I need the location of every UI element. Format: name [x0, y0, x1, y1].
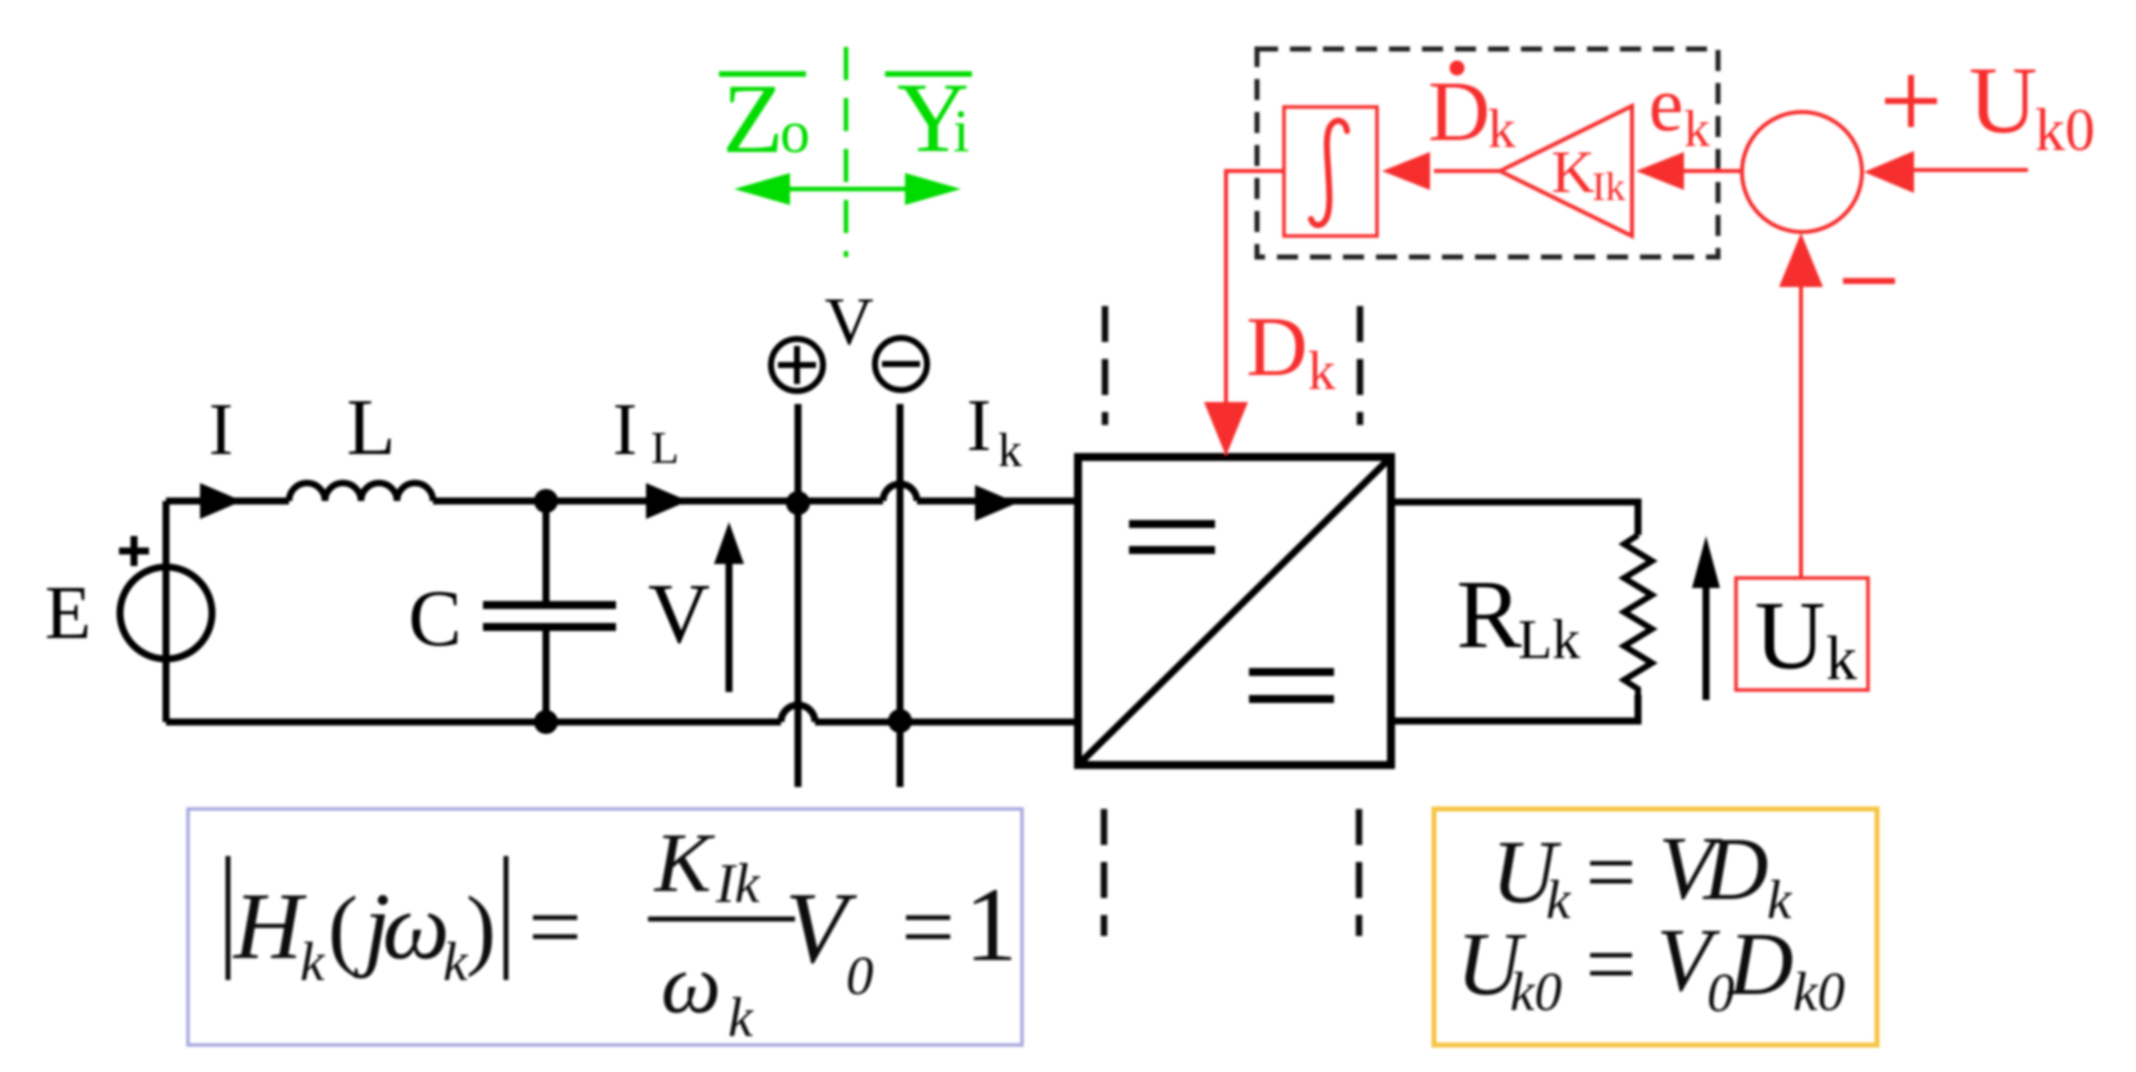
svg-text:V: V [824, 283, 873, 359]
svg-text:K: K [1551, 139, 1594, 205]
svg-text:I: I [967, 385, 992, 467]
svg-text:k: k [1684, 101, 1710, 158]
svg-text:L: L [347, 384, 396, 472]
svg-text:C: C [408, 575, 461, 663]
svg-text:k: k [300, 931, 326, 992]
svg-text:H: H [232, 873, 307, 979]
svg-text:U: U [1755, 582, 1826, 690]
svg-text:L: L [651, 422, 679, 473]
svg-text:k0: k0 [2035, 97, 2095, 163]
svg-text:k: k [998, 424, 1022, 477]
svg-text:K: K [654, 816, 716, 910]
svg-text:=: = [1586, 915, 1637, 1014]
svg-text:D: D [1246, 300, 1307, 394]
svg-text:=: = [901, 874, 955, 980]
svg-text:k: k [1546, 869, 1572, 930]
svg-text:D: D [1428, 63, 1490, 159]
svg-text:ω: ω [382, 873, 449, 979]
svg-text:k0: k0 [1510, 961, 1562, 1022]
svg-text:k: k [1826, 625, 1857, 693]
svg-text:o: o [780, 99, 810, 165]
svg-text:k: k [1488, 98, 1516, 159]
svg-text:Z: Z [722, 63, 783, 174]
svg-text:(: ( [328, 879, 358, 978]
svg-text:=: = [1586, 823, 1637, 922]
svg-text:I: I [613, 389, 638, 471]
svg-text:=: = [528, 874, 582, 980]
svg-text:1: 1 [965, 866, 1018, 983]
svg-text:): ) [466, 879, 496, 978]
svg-text:Ik: Ik [715, 853, 761, 915]
svg-text:V: V [648, 565, 710, 661]
svg-text:ω: ω [661, 937, 721, 1031]
svg-text:k: k [728, 987, 754, 1049]
svg-text:R: R [1456, 561, 1522, 669]
svg-text:U: U [1969, 47, 2038, 153]
svg-text:i: i [953, 98, 970, 164]
svg-text:k0: k0 [1793, 961, 1845, 1022]
svg-text:0: 0 [846, 945, 874, 1006]
svg-text:Lk: Lk [1518, 609, 1580, 671]
svg-text:Ik: Ik [1592, 164, 1625, 209]
svg-text:D: D [1702, 820, 1769, 919]
svg-text:I: I [209, 389, 234, 471]
svg-text:D: D [1727, 915, 1794, 1014]
svg-text:E: E [45, 571, 91, 655]
svg-text:e: e [1649, 60, 1684, 147]
svg-text:k: k [1308, 340, 1336, 401]
